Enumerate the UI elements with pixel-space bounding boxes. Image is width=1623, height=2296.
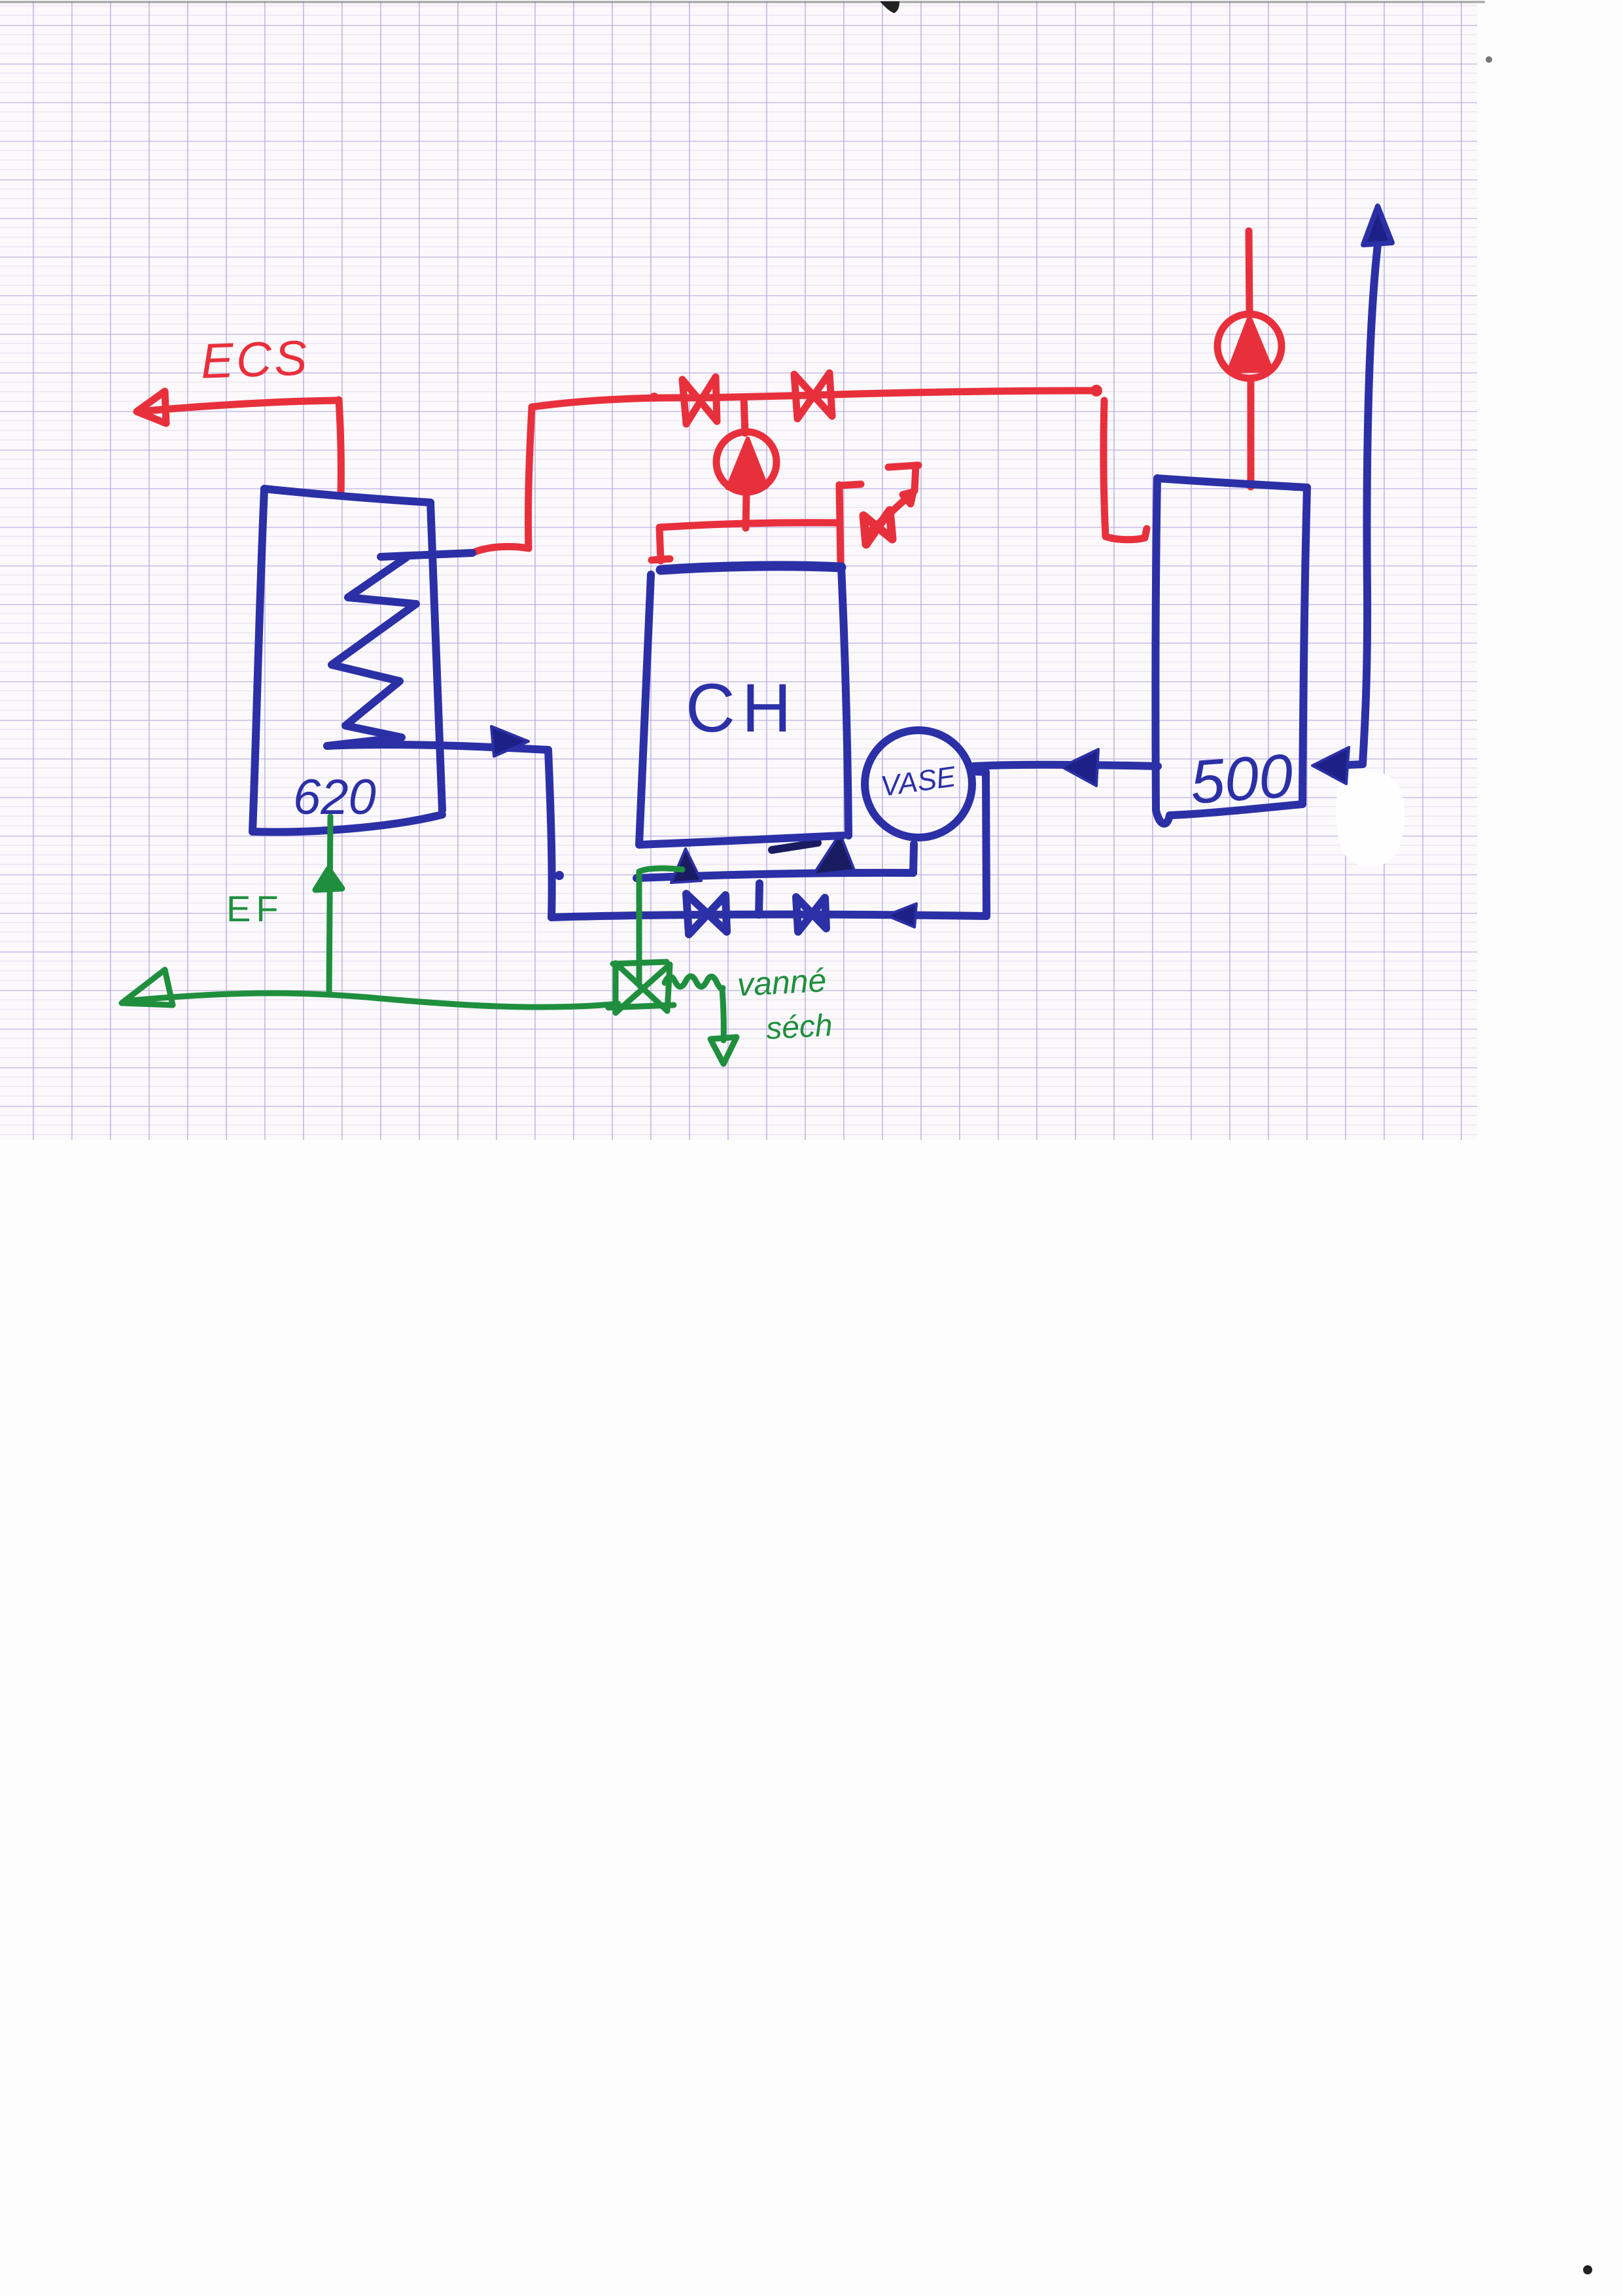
wire drop to tank 620 top xyxy=(339,400,341,495)
pump P1 circle xyxy=(716,432,777,492)
drain coil squiggle xyxy=(665,976,723,989)
arrow up-right into CH corner xyxy=(772,843,818,850)
valve red V2 xyxy=(794,373,832,419)
arrow left into 500 xyxy=(1312,747,1349,784)
wire step down to tank 500 xyxy=(1104,400,1147,540)
wire EF main xyxy=(124,993,618,1007)
pump P1 rotor triangle xyxy=(727,438,767,488)
wire ECS outlet xyxy=(139,400,338,412)
speck bottom right xyxy=(1583,2265,1592,2274)
tank CH top xyxy=(661,566,841,570)
valve blue V4 xyxy=(796,897,826,932)
svg-text:ECS: ECS xyxy=(200,330,311,389)
tank 620 left wall xyxy=(253,489,264,832)
valve blue V3 xyxy=(686,894,727,934)
tank CH left wall xyxy=(639,574,651,845)
svg-text:vanné: vanné xyxy=(737,962,828,1003)
arrowhead EF (open) xyxy=(122,970,173,1005)
wire drain drop xyxy=(722,989,724,1040)
node blob end xyxy=(1091,385,1102,397)
tank 620 bottom xyxy=(253,815,442,832)
vase (expansion vessel) xyxy=(865,730,972,838)
arrowhead ECS (open) xyxy=(137,391,166,423)
coil bottom outlet wire xyxy=(327,745,548,750)
wire riser to vase xyxy=(986,772,986,916)
arrowhead down (open) xyxy=(710,1037,737,1064)
wire from 620 coil to riser xyxy=(472,546,529,553)
svg-text:séch: séch xyxy=(765,1008,833,1046)
tank 620 top xyxy=(264,489,430,503)
wire return bottom xyxy=(551,915,986,917)
svg-text:620: 620 xyxy=(293,769,376,825)
wire vase bottom riser xyxy=(913,844,914,873)
node dot xyxy=(555,871,564,880)
valve vanne sech xyxy=(613,962,667,964)
arrow up top of riser xyxy=(1363,206,1392,245)
svg-text:CH: CH xyxy=(686,670,798,747)
wire riser elbow xyxy=(1335,764,1363,766)
wire red header top xyxy=(532,391,1096,407)
wire header right drop xyxy=(839,485,841,563)
arrow up into CH xyxy=(671,849,701,883)
tank 500 left wall xyxy=(1155,478,1157,809)
wire CH red header xyxy=(659,523,839,561)
wire riser to CH xyxy=(637,872,642,985)
tank 500 bottom xyxy=(1156,804,1302,824)
pump P1 stem bottom xyxy=(746,492,746,528)
pump P1 stem top xyxy=(744,398,745,433)
junction tick xyxy=(759,883,759,915)
pump P2 circle xyxy=(1217,314,1282,378)
arrow right on outlet xyxy=(491,726,529,756)
white-out patch xyxy=(1336,771,1405,867)
pump P2 rotor triangle xyxy=(1229,317,1272,372)
node dot xyxy=(650,393,659,402)
wire drop to return xyxy=(548,750,552,917)
wire vase to 500 xyxy=(974,765,1158,766)
arrow up on riser xyxy=(315,869,342,890)
tank 500 top xyxy=(1157,478,1307,487)
tank CH right wall xyxy=(841,567,848,836)
svg-text:500: 500 xyxy=(1188,741,1295,817)
relief valve S1 xyxy=(864,510,892,544)
arrow left to vase xyxy=(1062,749,1098,786)
pump P2 stem top xyxy=(1249,231,1249,313)
pen mark top center xyxy=(880,1,899,13)
wire vase link xyxy=(972,771,986,772)
wire EF riser to 620 xyxy=(329,817,330,995)
wire right riser xyxy=(1363,245,1378,764)
graph paper sheet xyxy=(0,1,1477,1140)
arrow left on return xyxy=(886,904,916,927)
svg-text:EF: EF xyxy=(226,888,284,929)
valve red V1 xyxy=(682,377,717,424)
tank 500 right wall xyxy=(1302,487,1307,804)
speck top right xyxy=(1486,56,1492,63)
serif left xyxy=(652,559,670,560)
scan top edge xyxy=(0,1,1485,3)
tank CH bottom xyxy=(639,836,843,845)
pump P2 stem bottom xyxy=(1248,380,1255,487)
coil (heat exchanger) xyxy=(327,557,416,746)
coil top outlet wire xyxy=(381,553,472,557)
wire under CH xyxy=(637,873,913,878)
tank 620 right wall xyxy=(430,503,442,810)
wire riser x810 xyxy=(528,407,532,548)
wire elbow to CH inlet xyxy=(639,868,682,872)
